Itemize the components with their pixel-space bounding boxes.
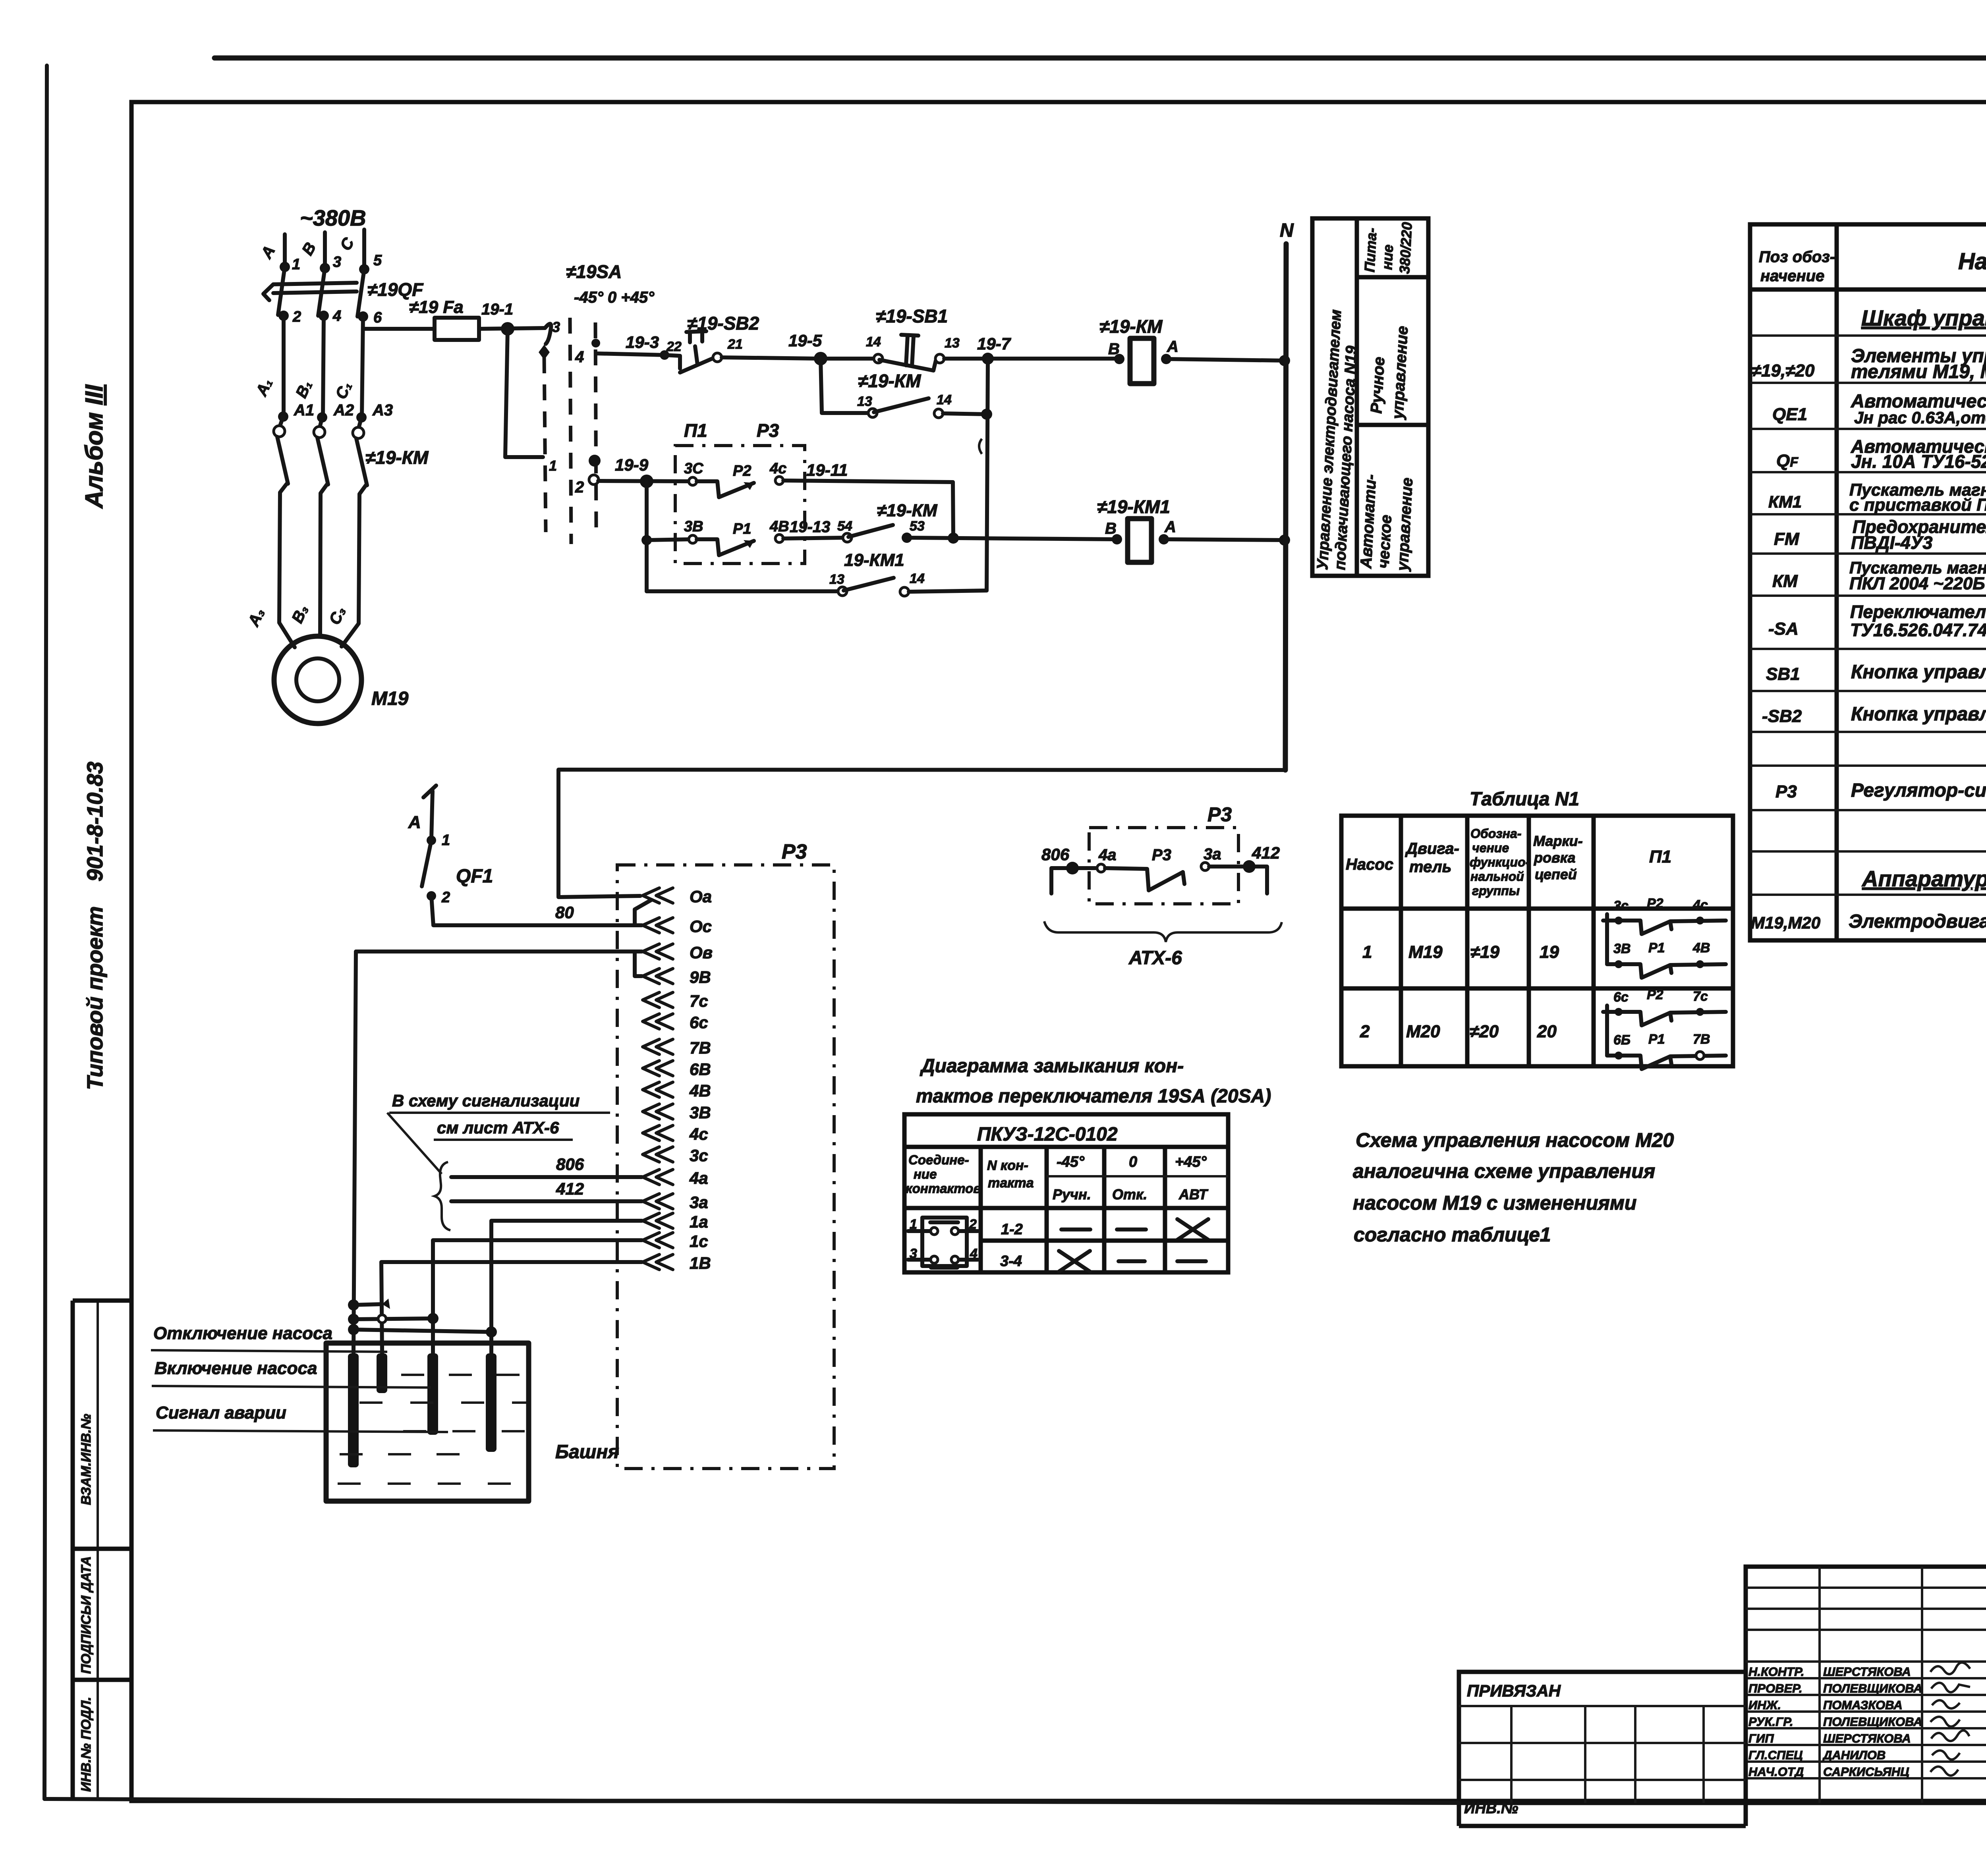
node 2 [278,311,289,321]
svg-text:+45°: +45° [1175,1154,1207,1170]
electrode E2 [380,1343,384,1353]
breaker QF tie-bar [273,283,357,284]
svg-text:-45°: -45° [1057,1154,1085,1170]
svg-text:4а: 4а [1098,846,1117,864]
svg-text:ГИП: ГИП [1748,1731,1774,1745]
svg-text:412: 412 [1252,843,1280,862]
svg-text:1: 1 [1362,942,1372,962]
terminal 4b [643,1082,673,1097]
svg-text:ние: ние [1379,244,1396,270]
svg-text:Диаграмма замыкания кон-: Диаграмма замыкания кон- [920,1056,1184,1077]
svg-text:4с: 4с [1692,897,1708,913]
svg-text:~380В: ~380В [300,205,366,230]
svg-text:ПКЛ 2004 ~220Б JН-10А: ПКЛ 2004 ~220Б JН-10А [1849,574,1986,593]
KM main blade 1 [277,437,288,484]
svg-text:3С: 3С [684,460,703,477]
svg-text:функцио-: функцио- [1470,855,1530,869]
svg-text:19-11: 19-11 [806,461,848,479]
row3 wire into P1 box [647,539,691,540]
svg-text:НАЧ.ОТД: НАЧ.ОТД [1748,1765,1804,1779]
svg-text:4: 4 [332,308,341,324]
column line [1102,1147,1107,1272]
svg-text:Н.КОНТР.: Н.КОНТР. [1748,1665,1804,1679]
svg-text:цепей: цепей [1535,866,1577,882]
terminal 3a [643,1194,673,1209]
svg-text:ческое: ческое [1375,514,1395,569]
left drop 19-9 to row3/row4 [645,481,649,591]
wire node6 to fuse [363,327,435,331]
SECTION-NOTE [1353,1129,1674,1246]
svg-text:1: 1 [549,457,557,474]
svg-text:Типовой проект 901-8-10.83: Типовой проект 901-8-10.83 [82,762,107,1090]
SECTION-POWER [245,205,665,724]
wire phase B3 to motor [320,484,327,635]
svg-text:Марки-: Марки- [1533,833,1583,849]
svg-text:АВТ: АВТ [1178,1186,1209,1202]
SECTION-DIAG [904,1056,1271,1272]
svg-text:А3: А3 [372,401,393,419]
svg-text:3а: 3а [1204,845,1221,863]
svg-text:А1: А1 [294,401,314,419]
svg-text:≠20: ≠20 [1470,1022,1499,1041]
SECTION-TAB1 [1341,789,1733,1069]
title block outer [1746,1567,1986,1803]
KM aux seal-in branch: wire down from 19-5 [821,359,868,413]
tie bar 2 [354,1318,433,1319]
svg-text:-SА: -SА [1768,619,1799,639]
terminal 6c [643,1014,673,1029]
svg-text:Jн рас 0.63А,отсечка 1.3Iн: Jн рас 0.63А,отсечка 1.3Iн ТУ16.522.110-… [1854,408,1986,427]
svg-text:ровка: ровка [1534,849,1575,866]
svg-text:ГЛ.СПЕЦ: ГЛ.СПЕЦ [1748,1748,1803,1762]
contact KM aux (NO) [868,409,877,417]
wire circuit 806 to 4a [451,1175,642,1179]
column line [1045,1147,1049,1272]
function strip table frame [1312,218,1428,576]
row2 mini contact P2 (6c-7c) [1603,1010,1607,1014]
vertical link 19-7 to KM1 seal row [987,359,988,591]
svg-text:13: 13 [829,572,844,587]
svg-text:Насос: Насос [1346,856,1393,873]
motor M19 circle [274,636,361,724]
electrode E1 [352,1343,355,1353]
svg-text:≠19-КМ: ≠19-КМ [858,371,922,391]
svg-text:6: 6 [373,309,382,326]
svg-text:Р1: Р1 [1648,1032,1665,1047]
svg-text:4В: 4В [1692,940,1710,955]
svg-text:19-КМ1: 19-КМ1 [844,550,904,570]
svg-text:Р3: Р3 [1207,803,1232,826]
svg-text:М19: М19 [371,688,409,709]
contactor KM main pole 2 terminal [320,417,322,426]
svg-text:≠19-КМ: ≠19-КМ [1099,316,1163,337]
svg-text:ВЗАМ.ИНВ.№: ВЗАМ.ИНВ.№ [79,1414,94,1505]
button SB1 (NO) [874,354,883,363]
svg-text:Р2: Р2 [733,463,751,479]
P1 box (dash-dot) [675,446,805,564]
svg-text:4с: 4с [689,1125,708,1143]
svg-text:Р3: Р3 [1775,782,1797,801]
svg-text:806: 806 [556,1155,584,1173]
svg-text:6с: 6с [690,1013,708,1032]
svg-text:3: 3 [333,254,341,270]
svg-text:М19,М20: М19,М20 [1751,913,1820,932]
net N return to P3 [558,770,1285,897]
svg-text:0: 0 [1129,1154,1137,1170]
wire KM aux to vertical [943,413,986,414]
phase C input stub [362,230,366,269]
header separator [904,1145,1228,1149]
svg-text:-45° 0 +45°: -45° 0 +45° [574,289,655,306]
svg-text:Аппаратура по месту: Аппаратура по месту [1861,866,1986,891]
column line [979,1147,983,1272]
wire 4c out / label 19-11 [783,481,953,482]
fuse FU 19Fa [435,318,479,340]
svg-text:3-4: 3-4 [1000,1253,1022,1270]
svg-text:ПКУЗ-12С-0102: ПКУЗ-12С-0102 [977,1124,1118,1145]
svg-text:ШЕРСТЯКОВА: ШЕРСТЯКОВА [1823,1665,1911,1679]
svg-text:Башня: Башня [555,1442,619,1463]
attachment table left of title block [1459,1672,1746,1803]
svg-text:2: 2 [1360,1022,1370,1041]
terminal 6b [643,1061,673,1076]
table N1 column lines [1399,816,1403,1066]
node 22 [660,350,669,360]
svg-text:4В: 4В [689,1081,711,1100]
svg-text:Р1: Р1 [1648,940,1665,955]
svg-text:N: N [1280,220,1294,241]
svg-text:ПОЛЕВЩИКОВА: ПОЛЕВЩИКОВА [1823,1715,1922,1729]
node 19-9 [640,475,653,488]
wire KM1 aux to vertical [909,591,987,592]
wire electrode E4 to 1a [491,1221,642,1353]
phase A input stub [283,234,287,267]
svg-text:Р3: Р3 [782,840,807,863]
svg-text:Наименование: Наименование [1958,249,1986,274]
wire electrode E3 to 1c [433,1240,642,1353]
breaker QF1 [427,836,436,845]
breaker QF blade A [278,267,285,315]
svg-text:Шкаф управления 19,20 Ш: Шкаф управления 19,20 Ш [1861,305,1986,330]
terminal 0c [643,918,673,933]
svg-text:≠19: ≠19 [1470,942,1500,962]
wire circuit 412 to 3a [451,1199,642,1203]
svg-text:АТХ-6: АТХ-6 [1128,948,1182,969]
svg-text:А: А [1167,338,1178,355]
svg-text:FМ: FМ [1774,529,1800,549]
wire SA pin4 to control row1 [596,353,665,355]
button SB2 (NC) [665,355,680,369]
wire phase C1 [362,317,363,417]
SA switch dashed pole line 1 [544,357,546,532]
svg-text:9В: 9В [690,968,711,986]
svg-text:Обозна-: Обозна- [1470,826,1521,841]
svg-text:ПОМАЗКОВА: ПОМАЗКОВА [1823,1698,1903,1712]
svg-text:≠19,≠20: ≠19,≠20 [1752,361,1815,380]
svg-text:Ос: Ос [690,917,712,936]
phase A tap stub for QF1 [431,791,433,839]
svg-text:ИНВ.№ ПОДЛ.: ИНВ.№ ПОДЛ. [79,1697,94,1792]
tank (tower) [326,1343,529,1501]
node 6 [358,311,368,322]
svg-text:Кнопка управления КЕ-011У3: Кнопка управления КЕ-011У3 исп.23 [1851,662,1986,683]
contact KM aux2 (NO) 54-53 [843,533,852,542]
svg-text:аналогична схеме управления: аналогична схеме управления [1353,1160,1655,1182]
svg-text:3с: 3с [690,1146,708,1165]
inv number cell [1457,1803,1461,1826]
svg-text:7В: 7В [690,1038,711,1057]
wire SB1 to node 19-7 [944,357,1117,361]
row2: wire SA pin2 to 19-9 [598,481,691,481]
svg-text:2: 2 [575,479,584,496]
svg-text:1а: 1а [690,1212,708,1231]
svg-text:ДАНИЛОВ: ДАНИЛОВ [1822,1748,1886,1762]
svg-text:3с: 3с [1613,898,1629,913]
svg-text:SВ1: SВ1 [1766,664,1800,684]
mini switch sketch [922,1218,967,1266]
svg-text:ТУ16.526.047.74: ТУ16.526.047.74 [1850,620,1986,640]
svg-text:53: 53 [910,519,925,534]
bottom-left vertical cells strip [71,1301,75,1799]
svg-text:1В: 1В [690,1254,711,1272]
svg-text:6В: 6В [690,1060,711,1079]
svg-text:тель: тель [1409,858,1451,876]
svg-text:≠19-SВ1: ≠19-SВ1 [876,306,948,326]
terminal 7c [643,992,673,1007]
svg-text:≠19 Fа: ≠19 Fа [409,297,464,317]
contactor KM main pole 1 terminal [280,417,283,426]
svg-text:такта: такта [988,1175,1034,1191]
svg-text:4с: 4с [769,460,786,477]
svg-text:≠19QF: ≠19QF [367,279,424,300]
svg-text:3: 3 [552,319,560,335]
terminal 1b [643,1255,673,1270]
brace [435,1162,450,1230]
SA switch dashed pole line 3 [595,322,596,528]
svg-text:согласно таблице1: согласно таблице1 [1354,1224,1551,1246]
node 19-5 [814,352,827,365]
net N vertical [1285,244,1286,770]
SECTION-ATX [1041,803,1282,969]
node A3 [356,412,367,423]
wire fuse to node 19-1 [479,328,545,329]
wire 806 lead [1051,868,1095,894]
svg-text:Jн. 10А ТУ16-522.064. 75: Jн. 10А ТУ16-522.064. 75 [1851,451,1986,472]
switch diagram table frame [904,1114,1228,1272]
tie bar 3 [354,1330,491,1332]
node on N [1279,355,1290,366]
contact KM1 aux (NO) [838,587,847,596]
underbrace [1044,921,1282,942]
svg-text:Отключение насоса: Отключение насоса [153,1324,332,1343]
wire electrode E2 to 1b [381,1262,642,1353]
node 4 [319,311,329,321]
svg-text:контактов: контактов [906,1181,981,1196]
jumper 0b-9b [635,953,642,976]
svg-text:Р3: Р3 [757,420,779,441]
wire phase A3 to motor [279,484,295,647]
svg-text:Ручн.: Ручн. [1053,1186,1091,1202]
svg-text:N кон-: N кон- [987,1158,1028,1173]
leader line to brace [387,1113,442,1174]
svg-text:2: 2 [441,889,450,906]
svg-text:≠19-КМ: ≠19-КМ [877,501,938,520]
SECTION-LIST [1750,224,1986,940]
corner 19-11 down to row3 [953,482,953,538]
svg-text:КМ: КМ [1772,571,1798,591]
coil KM [1130,338,1154,384]
svg-text:19: 19 [1540,942,1559,962]
svg-text:21: 21 [727,337,743,352]
svg-text:806: 806 [1041,845,1070,864]
wire phase C3 to motor [342,485,366,647]
svg-text:Сигнал аварии: Сигнал аварии [156,1403,286,1422]
svg-text:Ов: Ов [690,943,713,962]
terminal 1c [643,1233,673,1248]
svg-text:А2: А2 [333,401,354,419]
svg-text:Электродвигатель АОЛ 2-31-2,: Электродвигатель АОЛ 2-31-2, N=3 кВТ. [1849,911,1986,932]
component list table frame [1750,224,1986,940]
svg-text:Таблица N1: Таблица N1 [1470,789,1579,810]
node A2 [317,412,327,423]
svg-text:2: 2 [292,309,301,325]
terminal 0b wire from tower common [356,950,642,953]
svg-text:1: 1 [292,256,300,273]
svg-text:4В: 4В [769,518,789,535]
svg-text:Р3: Р3 [1152,846,1171,864]
svg-text:ПОДПИСЬИ ДАТА: ПОДПИСЬИ ДАТА [79,1556,94,1674]
svg-text:-SВ2: -SВ2 [1762,706,1802,726]
svg-text:М20: М20 [1406,1022,1440,1041]
svg-text:Кнопка управления КЕ-011У3: Кнопка управления КЕ-011У3 исп. 24 [1851,704,1986,725]
KM main blade 3 [356,438,367,485]
svg-text:В схему сигнализации: В схему сигнализации [392,1091,580,1110]
svg-text:П1: П1 [684,420,707,441]
relay contact P1 [689,535,697,543]
SECTION-CONTROL [558,220,1294,897]
terminal 7b [643,1039,673,1054]
contactor KM main pole 3 terminal [359,417,361,427]
svg-text:14: 14 [910,571,925,586]
svg-text:А: А [408,813,421,832]
SA switch dashed pole line 2 [570,318,571,544]
breaker QF blade C [357,269,364,317]
svg-text:19-13: 19-13 [790,518,830,536]
svg-text:4: 4 [575,348,584,366]
dash-dot box P3 contact [1089,828,1238,904]
wire 412 lead [1209,867,1267,894]
SA pin 4 tap [591,339,600,347]
svg-text:А: А [1164,518,1176,536]
left grid of title block [1746,1567,1986,1803]
svg-text:с приставкой ПКЛ 2004 ТУ16.: с приставкой ПКЛ 2004 ТУ16. 526. 437-78 [1849,495,1986,515]
svg-text:≠19-SВ2: ≠19-SВ2 [687,313,759,334]
wire KM1 coil to N [1164,539,1285,540]
svg-text:7с: 7с [1693,989,1708,1004]
svg-text:Регулятор-сигнализатор уровня: Регулятор-сигнализатор уровня ЭРСУ-3 [1851,780,1986,801]
column line [1163,1147,1167,1272]
row separator [981,1239,1228,1243]
svg-text:Переключатель ПКУ-3-12С-0102: Переключатель ПКУ-3-12С-0102 надпись 42 [1850,602,1986,622]
terminal 1a [643,1213,673,1228]
wire phase B1 [323,316,324,417]
jumper 0a-0c [635,900,651,925]
table N1 row lines [1341,907,1733,911]
tie bar 1 [354,1304,382,1305]
svg-text:1с: 1с [690,1232,708,1251]
row4: wire 19-9 drop to KM1 seal contact [647,589,838,593]
svg-text:нальной: нальной [1470,869,1524,884]
electrode E4 [489,1343,493,1353]
svg-text:412: 412 [556,1179,584,1198]
svg-text:группы: группы [1472,884,1520,898]
svg-text:ШЕРСТЯКОВА: ШЕРСТЯКОВА [1823,1731,1911,1745]
switch SA terminal 3 hook [545,324,551,344]
svg-text:1: 1 [442,832,450,849]
svg-text:см лист АТХ-6: см лист АТХ-6 [437,1118,559,1137]
svg-text:14: 14 [866,334,881,349]
svg-text:QF1: QF1 [456,866,493,887]
svg-text:19-5: 19-5 [788,331,822,350]
node 19-7 [982,353,994,365]
signatures [1930,1662,1970,1776]
svg-text:Пита-: Пита- [1361,228,1380,273]
svg-text:П1: П1 [1649,847,1671,867]
wire 19-1 down to SA pin1 [505,329,543,457]
svg-text:насосом М19 с изменениями: насосом М19 с изменениями [1353,1192,1636,1214]
svg-text:54: 54 [837,519,852,534]
sheet left edge line [44,66,47,1799]
coil KM1 [1128,519,1151,562]
water level dashes [401,1374,524,1376]
svg-text:3В: 3В [1613,941,1631,956]
svg-text:М19: М19 [1408,942,1443,962]
terminal 0b [643,944,673,959]
wire phase A1 [282,316,286,417]
terminal 3b [643,1104,673,1119]
SECTION-SIDETABLE [1312,218,1428,576]
svg-text:80: 80 [555,903,574,922]
contact P3 (NO) [1097,864,1105,872]
svg-text:Ручное: Ручное [1368,356,1388,414]
svg-text:4а: 4а [689,1169,708,1187]
crossing hop artifact [979,439,982,454]
svg-text:19-1: 19-1 [481,301,513,318]
svg-text:Р1: Р1 [733,521,751,537]
svg-text:Соедине-: Соедине- [908,1152,969,1167]
svg-text:7с: 7с [690,992,708,1010]
relay contact P2 [689,477,697,485]
svg-text:20: 20 [1537,1022,1557,1041]
svg-text:Включение насоса: Включение насоса [155,1359,317,1378]
SA terminal 3 diamond node [539,345,550,360]
row1 mini contact P2 (3c-4c) [1603,919,1607,923]
svg-text:19-9: 19-9 [615,455,649,474]
KM main blade 2 [317,438,328,484]
row separators [1750,336,1986,895]
svg-text:ние: ние [914,1167,937,1181]
wire common 0b down to electrode E1 [354,952,356,1353]
svg-text:Оа: Оа [690,887,712,906]
subheader separator [1047,1175,1228,1177]
svg-text:Схема управления насосом М2: Схема управления насосом М20 [1356,1129,1674,1151]
svg-text:5: 5 [373,252,382,269]
svg-text:≠19-КМ1: ≠19-КМ1 [1097,496,1170,517]
svg-text:6с: 6с [1613,990,1629,1005]
svg-text:телями М19, М20: телями М19, М20 [1851,361,1986,382]
node A1 [278,411,288,422]
svg-text:Двига-: Двига- [1405,840,1459,857]
